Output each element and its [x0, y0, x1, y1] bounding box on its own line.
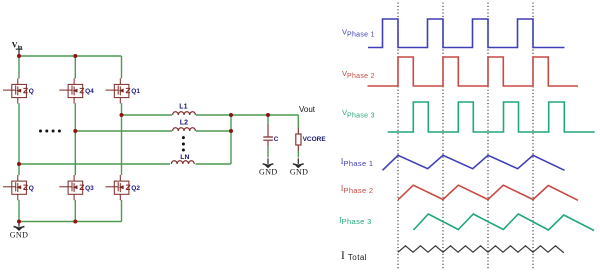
svg-text:Q3: Q3 [85, 185, 94, 192]
transistor Q2 [106, 175, 141, 200]
svg-text:LN: LN [180, 154, 189, 161]
transistor Q (bottom left) [3, 175, 34, 200]
transistor Q3 [59, 175, 94, 200]
inductor L1 [173, 104, 196, 115]
wire column 1 lower [18, 200, 20, 222]
svg-text:VPhase 1: VPhase 1 [342, 27, 375, 38]
svg-text:Vout: Vout [299, 105, 316, 114]
svg-text:L1: L1 [179, 104, 187, 111]
ellipsis dots horizontal (more phases) [39, 130, 61, 133]
svg-text:Q2: Q2 [131, 185, 140, 192]
ground (under C) [259, 158, 278, 176]
waveform I total (black ripple) [398, 246, 564, 253]
svg-text:IPhase 3: IPhase 3 [339, 215, 372, 226]
transistor Q1 [106, 78, 141, 103]
svg-text:Q: Q [29, 185, 34, 192]
waveform V phase 2 (red square) [368, 57, 579, 86]
junction Vout bus / L1 [229, 113, 233, 117]
power symbol Vin [12, 40, 23, 56]
wire column 3 lower [121, 200, 123, 222]
waveform I phase 2 (red triangle) [398, 185, 578, 200]
dotted gridline 4 [532, 3, 534, 270]
svg-text:VCORE: VCORE [303, 136, 327, 143]
wire top rail [19, 55, 122, 57]
svg-text:Vin: Vin [12, 40, 22, 50]
wire column 2 upper [74, 56, 76, 79]
wire LN line [19, 163, 231, 165]
wire column 3 upper [121, 56, 123, 79]
junction phase node L2 [73, 129, 77, 133]
dotted gridline 2 [442, 3, 444, 270]
transistor Q (top left) [3, 78, 34, 103]
waveform I phase 1 (blue triangle) [383, 155, 565, 170]
svg-text:Q1: Q1 [131, 88, 140, 95]
svg-text:IPhase 2: IPhase 2 [341, 184, 374, 195]
transistor Q4 [59, 78, 94, 103]
ground (left rail) [10, 221, 29, 240]
wire column 1 middle [18, 103, 20, 175]
svg-text:GND: GND [259, 168, 278, 177]
junction ground rail / phase 2 leg [73, 220, 77, 224]
wire column 1 upper [18, 56, 20, 79]
junction phase node L1 [120, 113, 124, 117]
resistor VCORE [296, 115, 327, 158]
junction phase node LN [17, 162, 21, 166]
capacitor C [263, 115, 279, 158]
ellipsis dots vertical (more inductors) [182, 136, 185, 151]
dotted gridline 1 [397, 3, 399, 270]
svg-text:ITotal: ITotal [341, 250, 367, 262]
wire L2 line [75, 130, 231, 132]
svg-text:Q: Q [29, 88, 34, 95]
wire bottom rail [19, 221, 122, 223]
junction Vout / capacitor C [266, 113, 270, 117]
waveform I phase 3 (green triangle) [414, 214, 595, 231]
svg-text:GND: GND [290, 168, 309, 177]
wire column 3 middle [121, 103, 123, 175]
inductor LN [171, 154, 194, 164]
junction ground rail / phase 1 leg [17, 220, 21, 224]
wire right bus vertical [230, 115, 232, 164]
wire column 2 middle [74, 103, 76, 175]
svg-text:L2: L2 [180, 119, 188, 126]
inductor L2 [173, 119, 196, 131]
svg-text:GND: GND [10, 231, 29, 240]
waveform V phase 3 (green square) [388, 102, 595, 132]
junction Vin rail / phase 2 leg [73, 54, 77, 58]
wire column 2 lower [74, 200, 76, 222]
svg-text:VPhase 2: VPhase 2 [342, 69, 375, 80]
junction Vin rail / phase 1 leg [17, 54, 21, 58]
dotted gridline 3 [487, 3, 489, 270]
wire L1 line / Vout line [122, 114, 299, 116]
svg-text:C: C [274, 136, 279, 143]
ground (under VCORE) [290, 158, 309, 176]
svg-text:Q4: Q4 [85, 88, 94, 95]
svg-text:VPhase 3: VPhase 3 [342, 108, 375, 119]
junction Vout bus / L2 [229, 129, 233, 133]
waveform V phase 1 (blue square) [368, 19, 565, 48]
svg-text:IPhase 1: IPhase 1 [341, 157, 374, 168]
